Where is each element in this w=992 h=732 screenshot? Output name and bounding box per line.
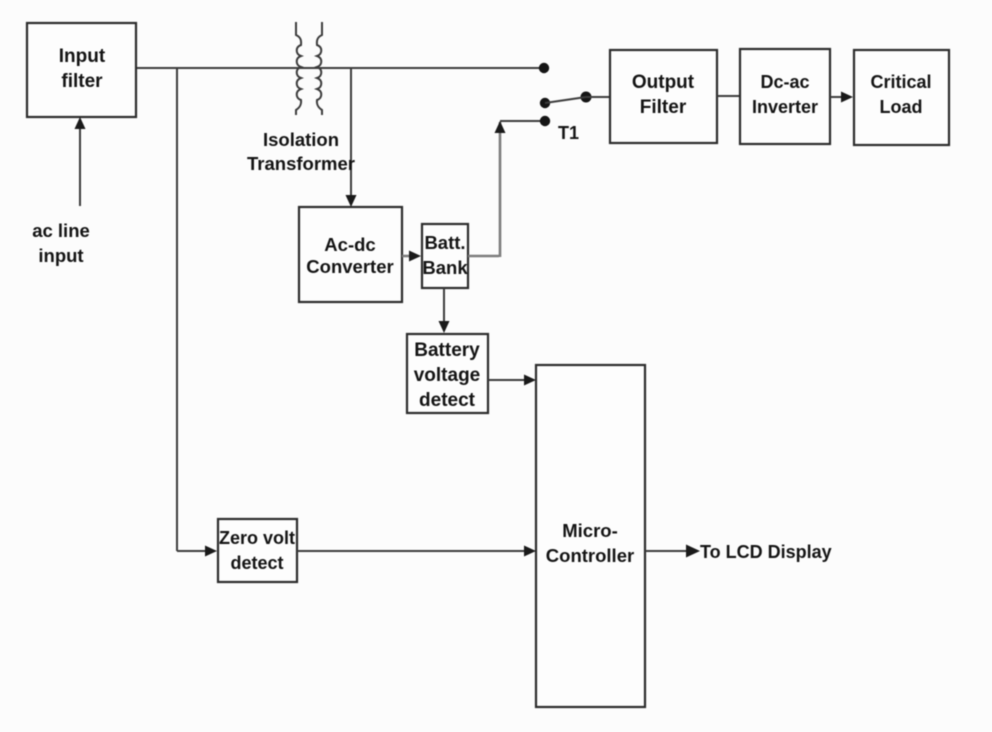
svg-text:Dc-ac: Dc-ac: [760, 72, 809, 92]
svg-text:Inverter: Inverter: [752, 97, 818, 117]
svg-text:Ac-dc: Ac-dc: [324, 234, 375, 255]
svg-text:Micro-: Micro-: [562, 520, 618, 541]
svg-text:Bank: Bank: [422, 257, 468, 278]
wire: Ac-dc Converter to Batt. Bank with arrowhead: [402, 251, 421, 262]
wire: T1 pole to Output Filter: [586, 96, 610, 98]
svg-text:To LCD Display: To LCD Display: [700, 542, 832, 562]
block: Dc-ac Inverter: [740, 49, 830, 144]
wire: Batt. Bank to T1 bottom contact (riser) with up arrowhead: [468, 121, 540, 257]
transformer T (isolation transformer) right winding: [317, 22, 322, 115]
wire: Battery voltage detect to Micro-Controller with arrowhead: [488, 375, 536, 386]
svg-text:Filter: Filter: [640, 97, 687, 118]
block: Batt. Bank: [422, 224, 468, 288]
switch T1 middle contact dot: [540, 98, 550, 108]
svg-text:Output: Output: [632, 72, 695, 93]
svg-text:Load: Load: [880, 97, 923, 117]
block: Ac-dc Converter: [299, 207, 402, 302]
wire: Dc-ac Inverter to Critical Load with arrowhead: [830, 92, 853, 103]
svg-text:Batt.: Batt.: [424, 232, 465, 253]
wire: Batt. Bank down to Battery voltage detect with arrowhead: [439, 288, 450, 333]
svg-text:ac line: ac line: [32, 220, 90, 241]
switch T1 top contact dot: [539, 63, 549, 73]
block: Output Filter: [610, 50, 717, 143]
svg-text:detect: detect: [419, 390, 476, 411]
svg-text:Battery: Battery: [414, 340, 480, 361]
wire: ac line input arrow into Input filter bottom: [75, 117, 86, 206]
block: Zero volt detect: [218, 519, 297, 582]
wire: main ac bus from Input filter to switch T1 top contact: [136, 67, 544, 69]
svg-text:Controller: Controller: [546, 545, 634, 566]
transformer T (isolation transformer) left winding: [296, 22, 301, 115]
switch T1 pole dot: [581, 92, 592, 103]
svg-text:input: input: [38, 245, 83, 266]
svg-text:Converter: Converter: [306, 256, 393, 277]
wire: Zero volt detect to Micro-Controller with arrowhead: [297, 546, 536, 557]
label: ac line input: [32, 220, 90, 266]
wire: Output Filter to Dc-ac Inverter: [717, 95, 740, 97]
svg-text:Critical: Critical: [870, 72, 931, 92]
svg-text:Isolation: Isolation: [263, 129, 339, 150]
label: To LCD Display: [700, 542, 832, 562]
switch T1 bottom contact dot: [540, 116, 550, 126]
svg-text:voltage: voltage: [414, 365, 481, 386]
wire: drop from ac bus to Ac-dc Converter with arrowhead: [346, 68, 357, 207]
svg-text:detect: detect: [230, 553, 283, 573]
svg-text:Input: Input: [59, 46, 106, 67]
label: Isolation Transformer: [247, 129, 355, 174]
svg-text:T1: T1: [558, 123, 579, 143]
wire: vertical tap from ac bus down to Zero volt detect: [176, 68, 178, 551]
svg-text:Transformer: Transformer: [247, 153, 355, 174]
label: T1: [558, 123, 579, 143]
svg-text:filter: filter: [61, 71, 103, 92]
wire: Micro-Controller to LCD display (thick) with arrowhead: [645, 545, 700, 558]
switch T1 blade: [545, 97, 586, 103]
block: Input filter: [27, 23, 136, 117]
svg-text:Zero volt: Zero volt: [219, 528, 295, 548]
block: Critical Load: [854, 50, 949, 145]
block: Battery voltage detect: [407, 334, 488, 413]
block: Micro-Controller: [536, 365, 645, 707]
wire: into Zero volt detect with arrowhead: [177, 546, 217, 557]
